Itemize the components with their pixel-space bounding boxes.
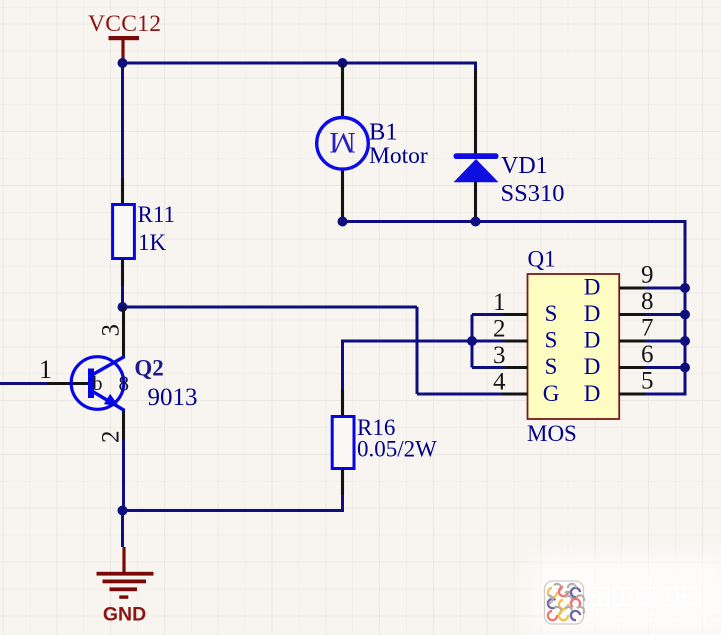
resistor R11 pin 1 [121, 178, 124, 204]
svg-text:5: 5 [641, 368, 654, 395]
node source junction [467, 336, 477, 346]
svg-text:G: G [543, 381, 560, 406]
pin 8 stub [619, 313, 645, 316]
pin 4 stub [502, 392, 528, 395]
svg-text:MOS: MOS [527, 421, 577, 446]
svg-text:9: 9 [641, 262, 654, 289]
node motor bottom junction [338, 217, 348, 227]
node emitter junction [118, 506, 128, 516]
svg-text:S: S [545, 328, 558, 353]
wire emitter lower [122, 440, 125, 511]
pin 9 stub [619, 286, 645, 289]
pin 5 stub [619, 392, 645, 395]
svg-text:GND: GND [103, 604, 146, 626]
wire source horizontal [343, 340, 504, 343]
svg-text:VD1: VD1 [501, 153, 548, 179]
svg-text:4: 4 [493, 369, 506, 396]
node drain junction 9 [680, 283, 690, 293]
node drain junction 7 [680, 336, 690, 346]
wire R16 upper [341, 340, 344, 390]
svg-text:S: S [545, 301, 558, 326]
svg-text:D: D [584, 381, 601, 406]
svg-text:2: 2 [493, 316, 506, 343]
resistor R16 pin 1 [341, 389, 344, 416]
svg-text:8: 8 [641, 288, 654, 315]
svg-text:1: 1 [493, 289, 506, 316]
resistor R16 pin 2 [341, 469, 344, 496]
svg-text:b: b [93, 373, 103, 395]
svg-text:9013: 9013 [148, 384, 198, 411]
wire pin1 link [472, 313, 503, 316]
wire drain bus [645, 220, 685, 394]
svg-text:8: 8 [119, 372, 130, 396]
svg-text:D: D [584, 354, 601, 379]
svg-text:D: D [584, 275, 601, 300]
motor B1 [317, 63, 428, 222]
wire drain stub 8 [645, 313, 685, 316]
svg-text:3: 3 [493, 342, 506, 369]
pin 6 stub [619, 366, 645, 369]
svg-text:M: M [329, 126, 356, 159]
wire R16 lower [123, 495, 343, 511]
wire R11 lower [121, 286, 124, 307]
svg-text:SS310: SS310 [501, 180, 565, 207]
watermark logo [543, 581, 585, 624]
pin 1 stub [502, 313, 528, 316]
svg-text:Q2: Q2 [134, 356, 163, 381]
wire base [0, 382, 47, 385]
wire gate vertical [416, 307, 419, 394]
node VCC junction [118, 58, 128, 68]
watermark text cn [591, 588, 700, 605]
wire drain stub 7 [645, 340, 685, 343]
svg-text:Motor: Motor [369, 143, 428, 169]
svg-text:VCC12: VCC12 [88, 11, 161, 37]
node motor top junction [338, 58, 348, 68]
svg-text:B1: B1 [369, 119, 398, 146]
svg-text:S: S [545, 354, 558, 379]
svg-text:mbb.eet-china.com: mbb.eet-china.com [589, 609, 706, 624]
wire drain stub 9 [645, 287, 685, 290]
pin 3 stub [502, 366, 528, 369]
node collector junction [118, 302, 128, 312]
svg-text:R11: R11 [138, 202, 176, 227]
svg-text:6: 6 [641, 341, 654, 368]
svg-text:D: D [584, 328, 601, 353]
wire source link vertical [471, 315, 474, 368]
diode VD1 [454, 62, 565, 222]
wire gate to pin4 [417, 393, 503, 396]
wire bottom rail [343, 220, 686, 223]
svg-text:1: 1 [39, 355, 52, 384]
pin 2 stub [502, 339, 528, 342]
resistor R11 pin 2 [121, 259, 124, 287]
svg-text:1K: 1K [138, 230, 167, 255]
resistor R11 [113, 202, 175, 259]
transistor Q2 [47, 307, 198, 440]
pin 7 stub [619, 339, 645, 342]
node drain junction 6 [680, 363, 690, 373]
power port VCC12 [88, 11, 161, 62]
mosfet Q1 body [527, 246, 619, 446]
wire gate horizontal [123, 306, 418, 309]
wire drain stub 6 [645, 366, 685, 369]
wire to ground [121, 511, 124, 548]
svg-text:Q1: Q1 [528, 246, 556, 271]
svg-text:7: 7 [641, 315, 654, 342]
resistor R16 [332, 415, 437, 469]
node drain junction 8 [680, 310, 690, 320]
power port GND [97, 547, 154, 626]
svg-text:0.05/2W: 0.05/2W [357, 437, 437, 462]
wire R11 upper [121, 63, 124, 178]
svg-text:D: D [584, 301, 601, 326]
wire pin3 link [472, 366, 503, 369]
wire top rail [123, 62, 476, 65]
svg-text:2: 2 [98, 431, 125, 444]
node diode bottom junction [471, 217, 481, 227]
svg-text:3: 3 [98, 324, 125, 337]
